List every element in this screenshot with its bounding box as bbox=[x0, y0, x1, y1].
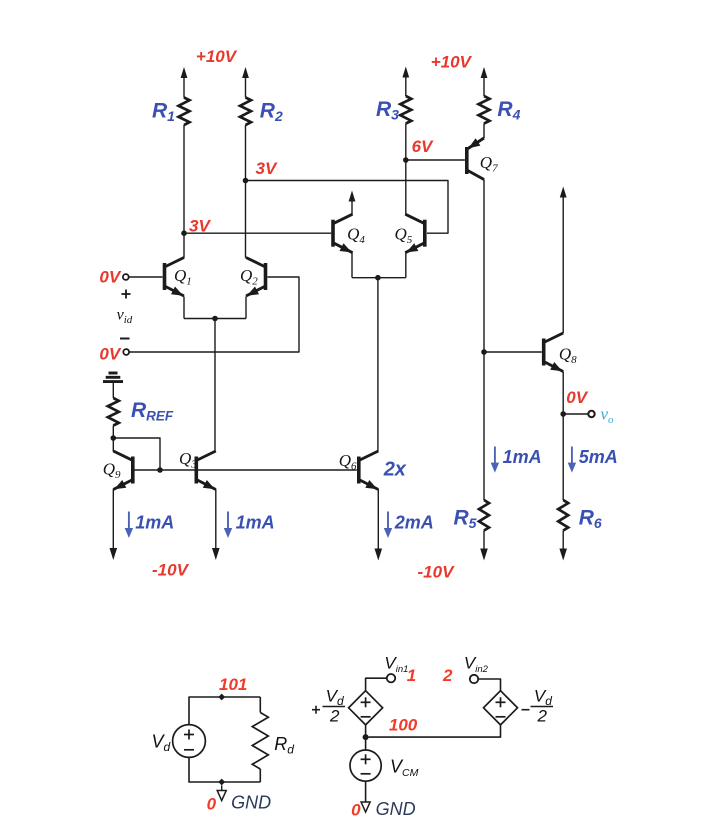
wire R2 to +10V rail (up arrow) bbox=[242, 67, 249, 98]
wire R4 bottom to Q7 emitter bbox=[483, 124, 485, 139]
svg-text:0V: 0V bbox=[99, 268, 121, 287]
svg-text:1mA: 1mA bbox=[503, 447, 542, 467]
label Q8 bbox=[559, 345, 577, 367]
node 6V (junction) bbox=[403, 157, 409, 163]
label Rd bbox=[274, 734, 294, 757]
label R6 bbox=[579, 507, 602, 532]
node 3V at Q2 collector (junction) bbox=[243, 178, 249, 184]
source Vd (independent) bbox=[173, 725, 206, 758]
wire common emitter Q1-Q2 bbox=[184, 318, 246, 320]
wire R1 bottom to Q1 collector bbox=[183, 125, 185, 258]
net label 0V (output) bbox=[566, 388, 588, 407]
current arrow 1mA (Q3) bbox=[224, 512, 232, 539]
label Q4 bbox=[347, 225, 365, 247]
transistor Q4 bbox=[333, 214, 353, 253]
node Q7 collector / Q8 base (junction) bbox=[481, 349, 487, 355]
label v_id bbox=[117, 307, 133, 327]
node Q4-Q5 tail (junction) bbox=[375, 275, 381, 281]
node label 0 (middle) bbox=[351, 801, 361, 820]
node label 100 bbox=[389, 716, 418, 735]
svg-text:Q4: Q4 bbox=[347, 225, 365, 247]
svg-text:R5: R5 bbox=[454, 507, 477, 532]
wire base bus Q9-Q3-Q6 bbox=[135, 469, 357, 471]
wire input2 to Q2 base (via riser) bbox=[129, 277, 299, 352]
svg-text:1: 1 bbox=[407, 666, 416, 685]
label RREF bbox=[131, 399, 174, 424]
wire Q4 emitter down bbox=[351, 252, 353, 278]
svg-text:2mA: 2mA bbox=[394, 513, 434, 533]
wire ground to RREF bbox=[112, 383, 114, 398]
label 2x bbox=[383, 459, 407, 481]
node 100 (junction) bbox=[363, 734, 369, 740]
resistor R6 bbox=[558, 500, 568, 531]
wire Q2 emitter down bbox=[245, 297, 247, 319]
label GND (middle) bbox=[376, 799, 416, 819]
wire tail node to Q3 collector bbox=[214, 319, 216, 453]
net +10V label (left) bbox=[196, 47, 238, 66]
resistor R4 bbox=[479, 96, 490, 124]
svg-text:RREF: RREF bbox=[131, 399, 174, 424]
label 1mA (R5) bbox=[503, 447, 542, 467]
wire Q8 collector to +10V (up arrow) bbox=[560, 187, 567, 334]
wire source to node 100 bbox=[365, 725, 367, 737]
wire R3 bottom through 6V node to Q5 collector bbox=[405, 124, 407, 215]
svg-text:5mA: 5mA bbox=[579, 447, 618, 467]
label − (input polarity) bbox=[120, 338, 130, 340]
net label -10V (right) bbox=[418, 563, 456, 582]
controlled source -Vd/2 (diamond) bbox=[484, 691, 518, 725]
wire Q7 collector down to R5 bbox=[483, 180, 485, 501]
label GND (left) bbox=[231, 793, 271, 813]
output terminal v_o bbox=[588, 411, 594, 417]
wire output node to terminal bbox=[563, 413, 588, 415]
resistor R1 bbox=[179, 98, 190, 126]
node 0 (diamond) bbox=[218, 779, 225, 786]
svg-text:Q6: Q6 bbox=[339, 451, 357, 473]
label R2 bbox=[260, 100, 283, 125]
svg-text:2: 2 bbox=[442, 666, 453, 685]
label 1mA (Q9) bbox=[135, 513, 174, 533]
current arrow 1mA (Q9) bbox=[125, 512, 133, 539]
svg-text:Q1: Q1 bbox=[174, 266, 192, 288]
svg-text:100: 100 bbox=[389, 716, 418, 735]
node RREF / Q9 base tie (junction) bbox=[111, 435, 117, 441]
wire R4 to +10V rail (up arrow) bbox=[481, 67, 488, 96]
wire source to node 100 (return) bbox=[369, 725, 501, 737]
current arrow 5mA (R6) bbox=[568, 447, 576, 473]
label 5mA (R6) bbox=[579, 447, 618, 467]
wire R3 to +10V rail (up arrow) bbox=[402, 67, 409, 97]
node label 101 bbox=[219, 675, 247, 694]
label R3 bbox=[376, 98, 399, 123]
svg-text:2: 2 bbox=[537, 707, 548, 726]
arrow Q9 emitter to -10V bbox=[110, 548, 118, 560]
label Q9 bbox=[103, 460, 121, 482]
transistor Q9 bbox=[113, 451, 133, 490]
label 1mA (Q3) bbox=[236, 513, 275, 533]
wire Q4 collector to +10V (up arrow) bbox=[349, 191, 356, 215]
wire Q4-Q5 tail to Q6 collector bbox=[377, 278, 379, 452]
label Q5 bbox=[395, 225, 413, 247]
net +10V label (right) bbox=[431, 53, 473, 72]
wire 6V node to Q7 base bbox=[406, 159, 465, 161]
transistor Q7 bbox=[467, 138, 484, 180]
svg-text:1mA: 1mA bbox=[236, 513, 275, 533]
label R1 bbox=[152, 100, 175, 125]
resistor R5 bbox=[479, 500, 489, 531]
svg-text:2: 2 bbox=[329, 707, 340, 726]
transistor Q5 bbox=[405, 214, 425, 253]
wire Q3 emitter down bbox=[215, 489, 217, 548]
svg-text:2x: 2x bbox=[383, 459, 407, 481]
input terminal 2 (0V) bbox=[123, 349, 129, 355]
svg-text:+10V: +10V bbox=[196, 47, 238, 66]
transistor Q2 bbox=[246, 258, 266, 297]
wire Q8 emitter down to R6 bbox=[562, 372, 564, 501]
wire VCM to GND bbox=[365, 781, 367, 802]
svg-text:Q9: Q9 bbox=[103, 460, 121, 482]
current arrow 1mA (R5) bbox=[491, 447, 499, 473]
transistor Q8 bbox=[544, 333, 564, 372]
svg-text:GND: GND bbox=[231, 793, 271, 813]
svg-text:Q8: Q8 bbox=[559, 345, 577, 367]
label +Vd/2 bbox=[312, 687, 345, 726]
wire Q6 emitter down bbox=[377, 489, 379, 548]
svg-text:GND: GND bbox=[376, 799, 416, 819]
wire RREF node to base bus bbox=[113, 438, 160, 470]
label v_o bbox=[601, 405, 615, 427]
svg-text:Vd: Vd bbox=[534, 687, 552, 709]
resistor Rd bbox=[252, 697, 268, 782]
svg-text:0V: 0V bbox=[99, 345, 121, 364]
svg-text:Q5: Q5 bbox=[395, 225, 413, 247]
source VCM (independent) bbox=[350, 750, 381, 781]
wire Vd top to node 101 bbox=[189, 697, 260, 725]
svg-text:Vd: Vd bbox=[152, 732, 171, 755]
input terminal 1 (0V) bbox=[123, 274, 129, 280]
wire Vd bottom to node 0 bbox=[189, 757, 260, 782]
label Q6 bbox=[339, 451, 357, 473]
transistor Q1 bbox=[165, 258, 185, 297]
svg-text:6V: 6V bbox=[412, 137, 434, 156]
resistor R3 bbox=[400, 96, 411, 124]
label + (input polarity) bbox=[122, 290, 131, 299]
svg-text:1mA: 1mA bbox=[135, 513, 174, 533]
label -Vd/2 bbox=[522, 687, 554, 726]
node label 2 bbox=[442, 666, 453, 685]
svg-text:0: 0 bbox=[207, 795, 217, 814]
label Q2 bbox=[240, 266, 258, 288]
label Q7 bbox=[480, 153, 498, 175]
wire Vin1 to source top bbox=[366, 678, 387, 691]
net label 0V (input −) bbox=[99, 345, 121, 364]
svg-text:0: 0 bbox=[351, 801, 361, 820]
label R5 bbox=[454, 507, 477, 532]
node 101 (diamond) bbox=[218, 694, 225, 701]
node output 0V (junction) bbox=[560, 411, 566, 417]
resistor R2 bbox=[240, 98, 251, 126]
svg-text:Q7: Q7 bbox=[480, 153, 498, 175]
svg-text:R6: R6 bbox=[579, 507, 602, 532]
arrow Q6 emitter to -10V bbox=[375, 548, 383, 561]
node base bus junction bbox=[157, 467, 163, 473]
current arrow 2mA (Q6) bbox=[384, 512, 392, 539]
resistor RREF bbox=[108, 398, 119, 426]
label 2mA (Q6) bbox=[394, 513, 434, 533]
terminal Vin2 bbox=[470, 675, 478, 683]
ground (chassis) above RREF bbox=[103, 373, 123, 382]
svg-text:Vin2: Vin2 bbox=[464, 654, 489, 676]
wire input1 to Q1 base bbox=[129, 276, 163, 278]
node label 3V (upper) bbox=[256, 159, 278, 178]
transistor Q6 bbox=[359, 451, 379, 490]
label Vin2 bbox=[464, 654, 489, 676]
svg-text:Q2: Q2 bbox=[240, 266, 258, 288]
net label 0V (input +) bbox=[99, 268, 121, 287]
node 3V at Q1 collector (junction) bbox=[181, 230, 187, 236]
wire common emitter Q4-Q5 bbox=[352, 277, 406, 279]
wire Vin2 to source top bbox=[478, 679, 500, 691]
label Q3 bbox=[179, 449, 197, 471]
node label 6V bbox=[412, 137, 434, 156]
svg-text:VCM: VCM bbox=[390, 757, 419, 780]
label Vin1 bbox=[384, 654, 408, 676]
node label 1 bbox=[407, 666, 416, 685]
svg-text:R2: R2 bbox=[260, 100, 283, 125]
ground GND (left circuit) bbox=[217, 785, 226, 800]
svg-text:Rd: Rd bbox=[274, 734, 294, 757]
svg-text:R4: R4 bbox=[497, 98, 520, 123]
svg-text:vo: vo bbox=[601, 405, 615, 427]
svg-text:-10V: -10V bbox=[418, 563, 456, 582]
wire R1 to +10V rail (up arrow) bbox=[181, 67, 188, 98]
ground GND (middle circuit) bbox=[361, 802, 370, 812]
wire Q1 emitter down bbox=[183, 297, 185, 319]
svg-text:Vd: Vd bbox=[326, 687, 344, 709]
wire 3V node to Q4 base bbox=[184, 232, 331, 234]
svg-text:Q3: Q3 bbox=[179, 449, 197, 471]
svg-text:Vin1: Vin1 bbox=[384, 654, 408, 676]
label VCM bbox=[390, 757, 419, 780]
wire node to Q8 base bbox=[484, 351, 542, 353]
wire R2 bottom to Q2 collector bbox=[245, 125, 247, 258]
wire R6 to -10V (down arrow) bbox=[559, 531, 567, 561]
wire 3V node to Q5 base (over the top) bbox=[246, 181, 449, 234]
label R4 bbox=[497, 98, 520, 123]
wire RREF to Q9 collector bbox=[112, 426, 114, 452]
svg-text:3V: 3V bbox=[256, 159, 278, 178]
wire node 100 to VCM bbox=[365, 737, 367, 750]
svg-text:R3: R3 bbox=[376, 98, 399, 123]
terminal Vin1 bbox=[387, 674, 395, 682]
svg-text:vid: vid bbox=[117, 307, 133, 327]
svg-text:101: 101 bbox=[219, 675, 247, 694]
node common emitters (junction) bbox=[212, 316, 218, 322]
svg-text:0V: 0V bbox=[566, 388, 588, 407]
label Vd bbox=[152, 732, 171, 755]
wire Q5 emitter down bbox=[405, 252, 407, 278]
node label 0 (left) bbox=[207, 795, 217, 814]
transistor Q3 bbox=[196, 451, 216, 490]
node label 3V (lower) bbox=[189, 217, 211, 236]
label Q1 bbox=[174, 266, 192, 288]
svg-text:-10V: -10V bbox=[152, 561, 190, 580]
controlled source +Vd/2 (diamond) bbox=[349, 691, 383, 725]
net label -10V (left) bbox=[152, 561, 190, 580]
wire Q9 emitter down bbox=[112, 489, 114, 548]
svg-text:R1: R1 bbox=[152, 100, 175, 125]
arrow Q3 emitter to -10V bbox=[212, 548, 220, 560]
wire R5 to -10V (down arrow) bbox=[480, 531, 488, 561]
svg-text:+10V: +10V bbox=[431, 53, 473, 72]
